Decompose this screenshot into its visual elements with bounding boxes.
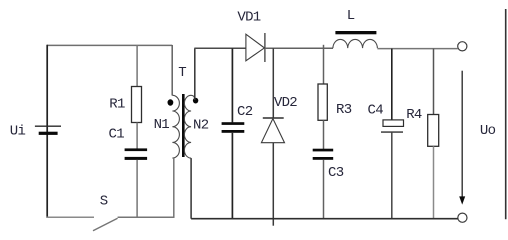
wire: transformer N1 bottom lead — [173, 158, 175, 218]
wire: R1 branch from top rail — [136, 45, 138, 87]
wire: C4 to bottom rail — [391, 132, 393, 219]
wire: secondary top rail, N2 to VD1 — [194, 47, 246, 49]
wire: VD2 branch — [272, 48, 274, 118]
capacitor C3 — [313, 149, 334, 160]
svg-text:Ui: Ui — [10, 123, 26, 139]
wire: battery vertical — [46, 45, 48, 218]
wire: C4 branch — [391, 49, 393, 120]
wire: R4 to bottom rail — [433, 146, 435, 218]
transformer core T — [182, 94, 185, 157]
terminal: output bottom — [458, 213, 467, 222]
polarity dot N1 — [168, 99, 174, 105]
wire: transformer N2 bottom lead — [190, 158, 192, 219]
svg-text:R4: R4 — [406, 107, 422, 123]
svg-text:C3: C3 — [328, 165, 344, 181]
svg-text:N1: N1 — [154, 117, 170, 133]
svg-text:C1: C1 — [109, 126, 125, 142]
wire: transformer N1 top lead — [171, 45, 173, 96]
svg-text:T: T — [178, 65, 186, 81]
wire: primary bottom rail left of switch — [47, 216, 95, 218]
wire: R1 to C1 — [136, 123, 138, 150]
inductor L — [333, 31, 377, 48]
switch S blade — [93, 218, 118, 231]
polarity dot N2 — [193, 98, 198, 104]
wire: C2 to bottom rail — [231, 133, 233, 219]
svg-text:R3: R3 — [336, 102, 352, 118]
svg-text:S: S — [100, 194, 108, 210]
wire: VD2 to bottom rail (with overshoot) — [272, 143, 274, 226]
wire: secondary top rail, VD1 to L — [265, 47, 333, 49]
wire: primary bottom rail right of switch — [118, 216, 175, 218]
wire: C3 to bottom rail — [323, 160, 325, 219]
svg-text:C2: C2 — [237, 104, 253, 120]
svg-text:L: L — [347, 8, 355, 24]
capacitor C1 — [125, 148, 148, 160]
wire: secondary top rail, L to output terminal — [377, 48, 457, 50]
border line right — [505, 9, 507, 219]
diode VD2 — [261, 118, 284, 143]
diode VD1 — [246, 33, 265, 62]
transformer winding N2 — [184, 95, 194, 158]
svg-text:Uo: Uo — [480, 123, 496, 139]
battery Ui — [35, 126, 61, 135]
wire: C1 to bottom rail — [136, 160, 138, 218]
terminal: output top — [458, 42, 467, 51]
svg-text:N2: N2 — [193, 117, 209, 133]
resistor R3 — [318, 84, 327, 120]
svg-text:VD2: VD2 — [274, 95, 297, 111]
wire: secondary bottom rail — [191, 218, 458, 220]
arrow Uo — [459, 71, 465, 205]
wire: transformer N2 top lead — [194, 48, 196, 100]
wire: R3 branch (tick above rail) — [323, 45, 325, 85]
capacitor C2 — [222, 122, 245, 133]
wire: C2 branch — [231, 48, 233, 122]
wire: primary top rail — [47, 44, 172, 46]
resistor R4 — [428, 115, 439, 147]
svg-text:R1: R1 — [109, 97, 125, 113]
transformer winding N1 — [172, 95, 179, 158]
resistor R1 — [132, 87, 142, 123]
capacitor C4 (electrolytic) — [381, 120, 404, 132]
svg-text:VD1: VD1 — [237, 9, 260, 25]
svg-text:C4: C4 — [368, 103, 384, 119]
wire: R3 to C3 — [323, 120, 325, 149]
wire: R4 branch — [433, 49, 435, 115]
